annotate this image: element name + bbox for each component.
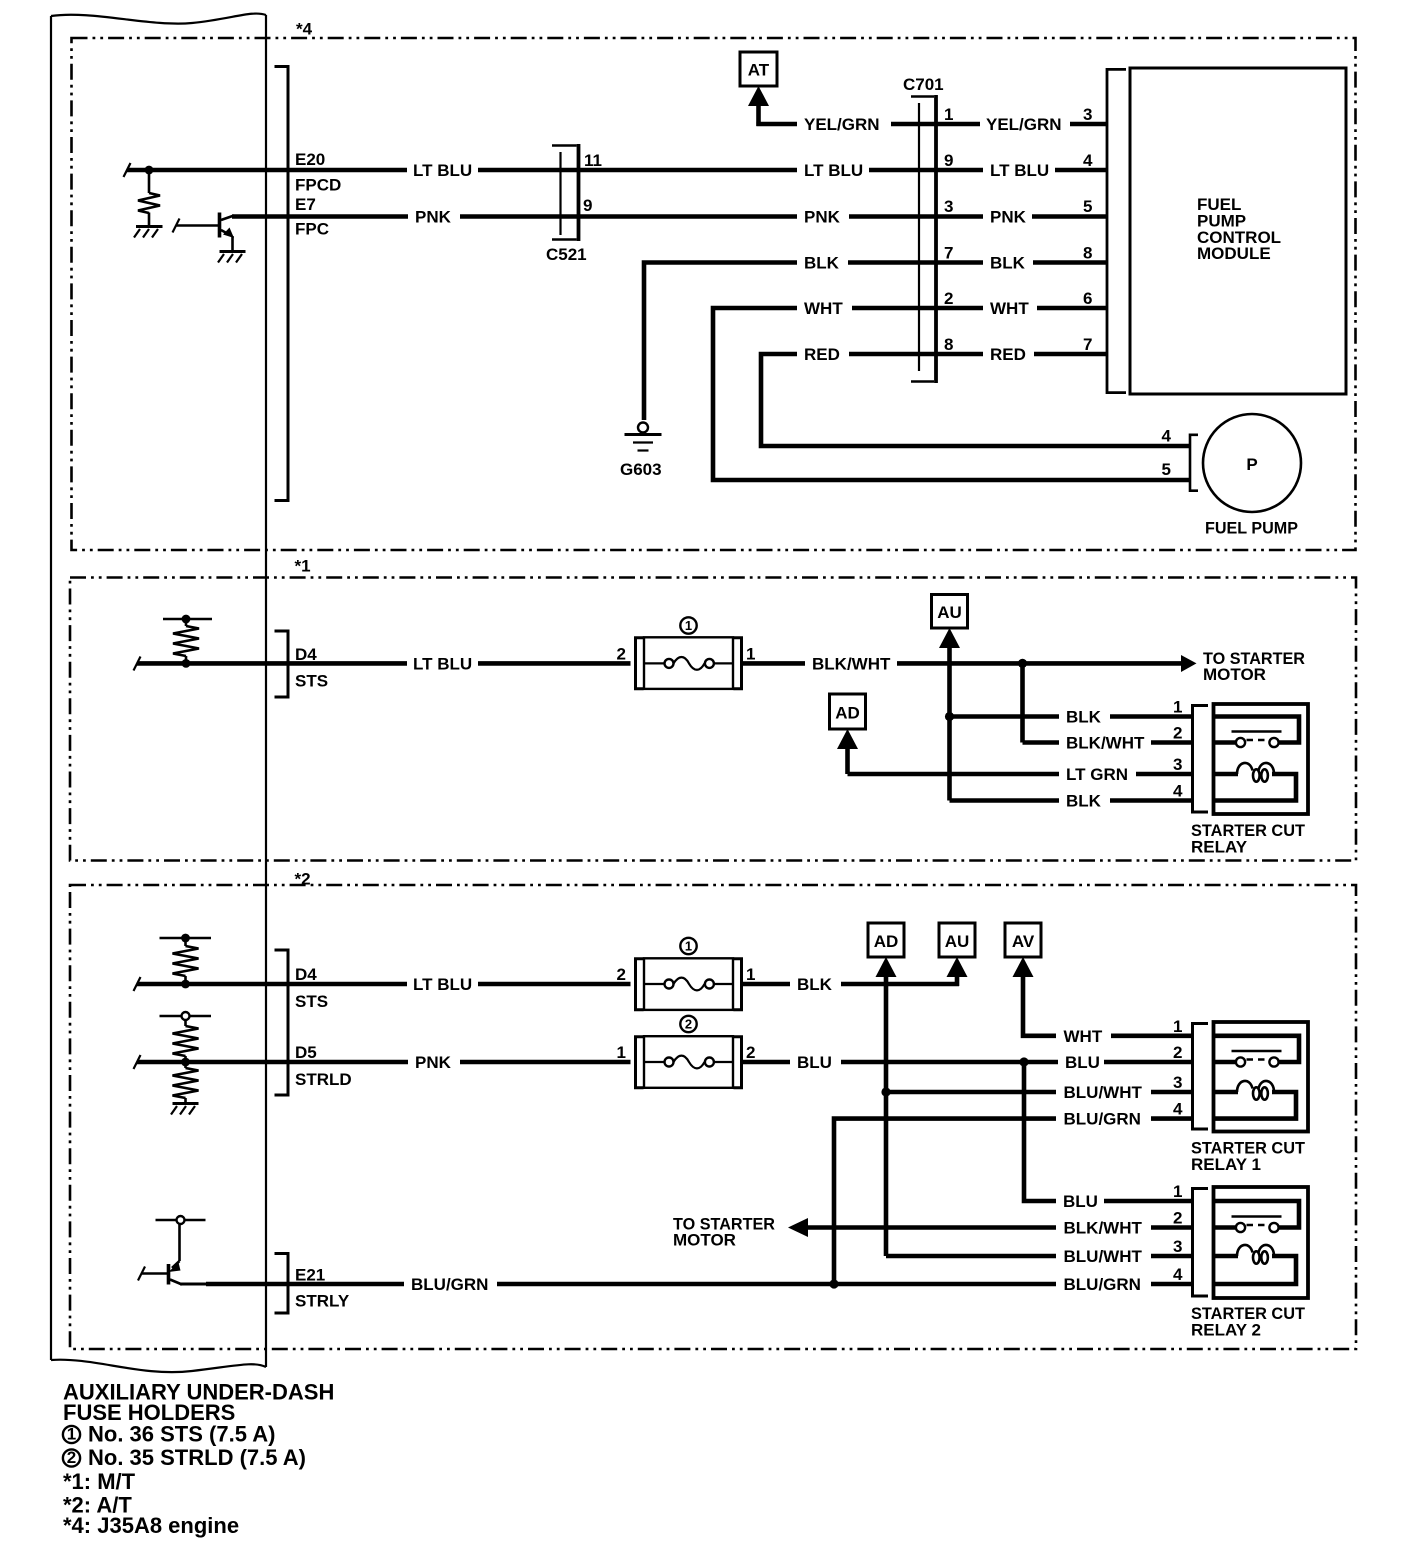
svg-text:*4: *4 <box>296 20 313 39</box>
vertical AV to WHT (relay 1 pin 1) <box>1023 972 1056 1036</box>
svg-text:1: 1 <box>685 618 692 633</box>
circled 2 legend <box>63 1449 80 1466</box>
svg-text:STS: STS <box>295 672 328 691</box>
svg-text:AV: AV <box>1012 932 1035 951</box>
arrow up into AT <box>748 86 769 106</box>
junction dot on AD vertical (BLU/WHT) <box>881 1087 890 1096</box>
wire BLU/WHT (relay 1 pin 3) <box>886 1090 1056 1095</box>
relay coil <box>1237 763 1274 782</box>
wire LT BLU (to C701) <box>478 168 797 173</box>
wire WHT (C701 to fuel pump 5) <box>713 308 1190 480</box>
relay 1 pin2 internal <box>1214 1060 1236 1065</box>
svg-text:2: 2 <box>617 645 626 664</box>
wire BLU/GRN (E21/STRLY collector) <box>180 1283 212 1286</box>
svg-text:WHT: WHT <box>804 299 843 318</box>
svg-text:8: 8 <box>944 335 953 354</box>
svg-text:LT BLU: LT BLU <box>413 161 472 180</box>
svg-text:C521: C521 <box>546 245 587 264</box>
svg-text:3: 3 <box>1173 1237 1182 1256</box>
connector AU box <box>939 923 975 957</box>
svg-text:C701: C701 <box>903 75 944 94</box>
svg-text:No. 35 STRLD (7.5 A): No. 35 STRLD (7.5 A) <box>88 1445 306 1470</box>
connector C701 <box>911 95 936 383</box>
svg-text:BLU/GRN: BLU/GRN <box>1064 1110 1141 1129</box>
svg-text:STRLD: STRLD <box>295 1070 352 1089</box>
resistor (FPCD pull-down) <box>148 172 151 193</box>
wire BLK (G603 to C701) <box>644 263 797 421</box>
svg-text:AD: AD <box>835 704 860 723</box>
module connector bracket <box>1107 69 1126 392</box>
resistor (STS pull-up) top line <box>163 618 212 621</box>
wire YEL/GRN (C701 to module pin 3) <box>936 122 980 127</box>
section box *1 (M/T) dash-dot border <box>70 578 1356 861</box>
svg-text:BLK/WHT: BLK/WHT <box>812 655 891 674</box>
wire YEL/GRN (AT to C701) <box>756 122 797 127</box>
svg-text:4: 4 <box>1173 1100 1183 1119</box>
svg-text:AU: AU <box>945 932 970 951</box>
vertical to relay pin 2 <box>1020 663 1025 742</box>
connector bracket E20/E7 (PCM side) <box>275 67 289 501</box>
svg-text:BLU: BLU <box>1063 1192 1098 1211</box>
connector AV box <box>1005 923 1041 957</box>
junction dot BLU/GRN <box>829 1279 838 1288</box>
svg-text:2: 2 <box>746 1043 755 1062</box>
svg-text:8: 8 <box>1083 244 1092 263</box>
starter cut relay 1 connector bracket <box>1193 1024 1209 1130</box>
svg-text:MOTOR: MOTOR <box>1203 665 1266 684</box>
wire YEL/GRN (into C701) <box>891 122 936 127</box>
module caption <box>1197 195 1281 263</box>
svg-text:4: 4 <box>1173 782 1183 801</box>
svg-text:9: 9 <box>944 151 953 170</box>
fuel pump motor circle <box>1203 414 1301 512</box>
circled 1 legend <box>63 1426 80 1443</box>
connector AT box <box>740 52 777 86</box>
wire LT BLU (D4 to fuse 1) <box>288 661 407 666</box>
connector AU box <box>932 595 968 629</box>
svg-text:RELAY: RELAY <box>1191 838 1248 857</box>
relay coil return to pin 4 <box>1214 774 1297 801</box>
svg-text:STS: STS <box>295 992 328 1011</box>
wire BLU (fuse 2 to relay 1 pin 2) <box>742 1060 791 1065</box>
junction dot FPCD resistor <box>145 166 154 175</box>
svg-text:6: 6 <box>1083 289 1092 308</box>
connector bracket D4/D5 <box>275 950 289 1095</box>
section box *4 (J35A8 engine) dash-dot border <box>72 38 1356 550</box>
svg-text:BLU/GRN: BLU/GRN <box>1064 1275 1141 1294</box>
wire E20/FPCD with break tick <box>124 163 131 177</box>
transistor FPC driver (NPN) <box>173 213 235 252</box>
svg-text:E21: E21 <box>295 1266 325 1285</box>
fuel pump control module box <box>1130 68 1346 394</box>
svg-text:2: 2 <box>685 1017 692 1032</box>
relay pin3 internal to coil <box>1214 772 1239 777</box>
wire BLK/WHT (fuse to starter motor) <box>742 661 806 666</box>
wire BLK (fuse 1 to AU) <box>742 982 791 987</box>
wire BLK/WHT (relay 2 pin 2) <box>804 1225 1056 1230</box>
relay switch contacts <box>1232 730 1282 733</box>
junction dot on main wire <box>1018 659 1027 668</box>
svg-text:BLK: BLK <box>1066 708 1102 727</box>
wire RED (into C701) <box>849 352 936 357</box>
svg-text:BLK: BLK <box>990 254 1026 273</box>
fuse holder no.36 STS (circled 1) <box>636 617 742 689</box>
svg-text:FPC: FPC <box>295 220 329 239</box>
fuse holder no.36 STS (circled 1) <box>636 938 742 1010</box>
resistor (STS pull-up) top line <box>160 937 212 940</box>
wire PNK (E7 to C521) <box>288 214 408 219</box>
svg-text:3: 3 <box>944 197 953 216</box>
svg-text:P: P <box>1246 455 1257 474</box>
junction dot on AU vertical (pin 1) <box>945 712 954 721</box>
svg-text:*1: M/T: *1: M/T <box>63 1469 136 1494</box>
junction dot BLU <box>1019 1057 1028 1066</box>
wire PNK (to C701) <box>460 214 797 219</box>
wire PNK (into C701) <box>849 214 936 219</box>
starter cut relay box <box>1214 704 1309 814</box>
svg-text:WHT: WHT <box>990 299 1029 318</box>
svg-text:*2: *2 <box>295 870 311 889</box>
arrow up into AD <box>876 957 897 977</box>
svg-text:PNK: PNK <box>415 208 452 227</box>
svg-text:1: 1 <box>67 1425 76 1444</box>
svg-text:MOTOR: MOTOR <box>673 1231 736 1250</box>
ground G603 <box>625 423 662 451</box>
svg-text:FUEL PUMP: FUEL PUMP <box>1205 519 1298 538</box>
svg-text:1: 1 <box>746 965 755 984</box>
svg-text:*4: J35A8 engine: *4: J35A8 engine <box>63 1513 239 1538</box>
svg-text:1: 1 <box>1173 1182 1182 1201</box>
svg-text:YEL/GRN: YEL/GRN <box>986 115 1062 134</box>
svg-text:2: 2 <box>67 1448 76 1467</box>
svg-text:3: 3 <box>1083 105 1092 124</box>
wire D4/STS with break tick <box>134 657 141 671</box>
svg-text:BLK: BLK <box>797 975 833 994</box>
resistor STRLD upper <box>184 1020 187 1026</box>
node dot (pull-up top) <box>182 615 191 624</box>
relay pin2 internal <box>1214 740 1236 745</box>
relay 2 switch contacts <box>1232 1215 1282 1218</box>
ground (FPC transistor emitter) <box>220 250 246 253</box>
relay 1 coil return to pin 4 <box>1214 1092 1297 1119</box>
svg-text:PNK: PNK <box>804 208 841 227</box>
arrow to starter motor (left) <box>788 1218 808 1237</box>
svg-text:1: 1 <box>944 105 953 124</box>
svg-text:PNK: PNK <box>990 208 1027 227</box>
svg-text:2: 2 <box>1173 1209 1182 1228</box>
starter cut relay connector bracket <box>1193 706 1209 813</box>
svg-text:PNK: PNK <box>415 1053 452 1072</box>
svg-text:RED: RED <box>990 345 1026 364</box>
wire PNK (C701 to module pin 5) <box>936 214 983 219</box>
svg-text:5: 5 <box>1083 197 1092 216</box>
svg-text:BLU/WHT: BLU/WHT <box>1064 1247 1143 1266</box>
starter cut relay 1 box <box>1214 1022 1309 1132</box>
svg-text:4: 4 <box>1162 427 1172 446</box>
svg-text:E7: E7 <box>295 195 316 214</box>
svg-text:5: 5 <box>1162 460 1171 479</box>
relay 1 pin3 internal to coil <box>1214 1090 1239 1095</box>
wire D5/STRLD with break tick <box>134 1055 141 1069</box>
svg-text:1: 1 <box>1173 1017 1182 1036</box>
svg-text:No. 36 STS (7.5 A): No. 36 STS (7.5 A) <box>88 1422 275 1447</box>
connector C521 <box>552 144 579 241</box>
arrow up into AU <box>939 628 960 648</box>
relay 1 internals: pin1 feed to switch <box>1214 1036 1300 1062</box>
wire D4/STS with break tick <box>134 977 141 991</box>
wire RED (C701 to module pin 7) <box>936 352 983 357</box>
svg-text:LT BLU: LT BLU <box>413 655 472 674</box>
ground (FPCD resistor) <box>136 225 163 228</box>
transistor STRLY driver (PNP) <box>138 1216 206 1285</box>
junction dot on D4 wire <box>181 980 190 989</box>
svg-text:D4: D4 <box>295 965 317 984</box>
vertical AD to relay pins BLU/WHT <box>884 972 889 1256</box>
starter cut relay 2 connector bracket <box>1193 1189 1209 1297</box>
relay 2 internals: pin1 feed to switch <box>1214 1201 1300 1228</box>
vertical BLU to relay 2 pin 1 <box>1024 1062 1056 1201</box>
wire BLU/WHT (relay 2 pin 3 from AD) <box>886 1254 1056 1259</box>
svg-text:AD: AD <box>874 932 899 951</box>
svg-text:1: 1 <box>617 1043 626 1062</box>
connector AD box <box>830 694 866 729</box>
svg-text:2: 2 <box>944 289 953 308</box>
relay 1 switch contacts <box>1232 1050 1282 1053</box>
relay 2 pin3 internal to coil <box>1214 1254 1239 1259</box>
svg-text:BLK: BLK <box>1066 792 1102 811</box>
svg-text:4: 4 <box>1173 1265 1183 1284</box>
arrow to starter motor <box>1181 655 1197 672</box>
wire BLU/GRN (relay 1 pin 4) <box>834 1119 1056 1284</box>
svg-text:11: 11 <box>584 151 602 170</box>
starter cut relay 2 box <box>1214 1187 1309 1298</box>
wire LT BLU (D4 to fuse 1) <box>288 982 407 987</box>
vertical AD to relay pin 3 <box>845 744 850 774</box>
wire BLK/WHT (relay pin 2) <box>1023 740 1060 745</box>
svg-text:RELAY 2: RELAY 2 <box>1191 1321 1261 1340</box>
svg-text:BLU: BLU <box>1065 1053 1100 1072</box>
wire RED (C701 to fuel pump 4) <box>761 354 1190 446</box>
svg-text:STRLY: STRLY <box>295 1292 350 1311</box>
svg-text:BLU/GRN: BLU/GRN <box>411 1275 488 1294</box>
fuse holder no.35 STRLD (circled 2) <box>636 1016 742 1088</box>
wire E7/FPC (transistor collector to connector) <box>232 214 287 219</box>
svg-text:1: 1 <box>746 645 755 664</box>
connector bracket D4 <box>275 631 289 697</box>
relay 1 coil <box>1237 1081 1274 1100</box>
wire WHT (C701 to module pin 6) <box>936 306 983 311</box>
svg-text:9: 9 <box>583 196 592 215</box>
resistor STS <box>184 940 187 946</box>
svg-text:FPCD: FPCD <box>295 176 341 195</box>
relay 2 coil return to pin 4 <box>1214 1256 1297 1284</box>
relay 2 pin2 internal <box>1214 1225 1236 1230</box>
svg-text:RELAY 1: RELAY 1 <box>1191 1155 1261 1174</box>
svg-text:BLK/WHT: BLK/WHT <box>1066 734 1145 753</box>
svg-text:BLK/WHT: BLK/WHT <box>1064 1219 1143 1238</box>
resistor STRLD lower <box>184 1064 187 1068</box>
svg-text:3: 3 <box>1173 1073 1182 1092</box>
svg-text:7: 7 <box>944 244 953 263</box>
svg-text:AT: AT <box>748 61 770 80</box>
relay internals: pin1 feed to switch <box>1214 717 1300 743</box>
svg-text:MODULE: MODULE <box>1197 244 1271 263</box>
svg-text:1: 1 <box>685 939 692 954</box>
svg-text:4: 4 <box>1083 151 1093 170</box>
svg-text:RED: RED <box>804 345 840 364</box>
arrow up into AV <box>1013 957 1034 977</box>
junction dot on D4 wire <box>182 659 191 668</box>
ground (STRLD divider) <box>173 1102 199 1105</box>
svg-text:*1: *1 <box>295 557 311 576</box>
svg-text:LT BLU: LT BLU <box>804 161 863 180</box>
arrow up into AD <box>837 729 858 749</box>
svg-text:BLK: BLK <box>804 254 840 273</box>
svg-text:7: 7 <box>1083 335 1092 354</box>
svg-text:2: 2 <box>1173 1043 1182 1062</box>
node dot <box>181 934 190 943</box>
wire LT BLU (into C701) <box>869 168 936 173</box>
section box *2 (A/T) dash-dot border <box>70 885 1356 1349</box>
resistor (STRLD divider) top line with open node <box>160 1015 212 1018</box>
vertical AU to BLK wire <box>955 972 960 986</box>
svg-text:2: 2 <box>617 965 626 984</box>
wire BLK (C701 to module pin 8) <box>936 260 983 265</box>
svg-text:D5: D5 <box>295 1043 317 1062</box>
wire BLK (relay pin 1) <box>950 714 1060 719</box>
connector bracket E21 <box>275 1254 289 1314</box>
svg-text:LT BLU: LT BLU <box>990 161 1049 180</box>
wire LT BLU (C701 to module pin 4) <box>936 168 983 173</box>
svg-text:BLU/WHT: BLU/WHT <box>1064 1083 1143 1102</box>
wire PNK (D5 to fuse 2) <box>288 1060 408 1065</box>
wire WHT (into C701) <box>852 306 936 311</box>
svg-text:LT BLU: LT BLU <box>413 975 472 994</box>
fuel pump connector bracket <box>1190 435 1198 491</box>
svg-text:AU: AU <box>937 603 962 622</box>
svg-text:1: 1 <box>1173 698 1182 717</box>
svg-text:3: 3 <box>1173 755 1182 774</box>
svg-text:YEL/GRN: YEL/GRN <box>804 115 880 134</box>
svg-text:LT GRN: LT GRN <box>1066 765 1128 784</box>
svg-text:E20: E20 <box>295 150 325 169</box>
svg-text:WHT: WHT <box>1064 1027 1103 1046</box>
wire LT BLU (E20 to C521) <box>288 168 407 173</box>
resistor STS <box>185 621 188 626</box>
wire BLK (into C701) <box>848 260 936 265</box>
svg-text:G603: G603 <box>620 460 662 479</box>
wire BLU/GRN (E21 to relay 2 pin 4) <box>288 1282 404 1287</box>
vertical AU to relay pins 1/4 <box>947 643 952 801</box>
junction dot on D5 wire <box>181 1058 190 1067</box>
arrow up into AU <box>947 957 968 977</box>
wire LT GRN (relay pin 3) <box>848 772 1060 777</box>
svg-text:2: 2 <box>1173 724 1182 743</box>
svg-text:BLU: BLU <box>797 1053 832 1072</box>
wire BLK (relay pin 4) <box>950 798 1060 803</box>
left component card with torn top/bottom edges <box>51 14 266 1373</box>
relay 2 coil <box>1237 1245 1274 1264</box>
connector AD box <box>868 923 904 957</box>
